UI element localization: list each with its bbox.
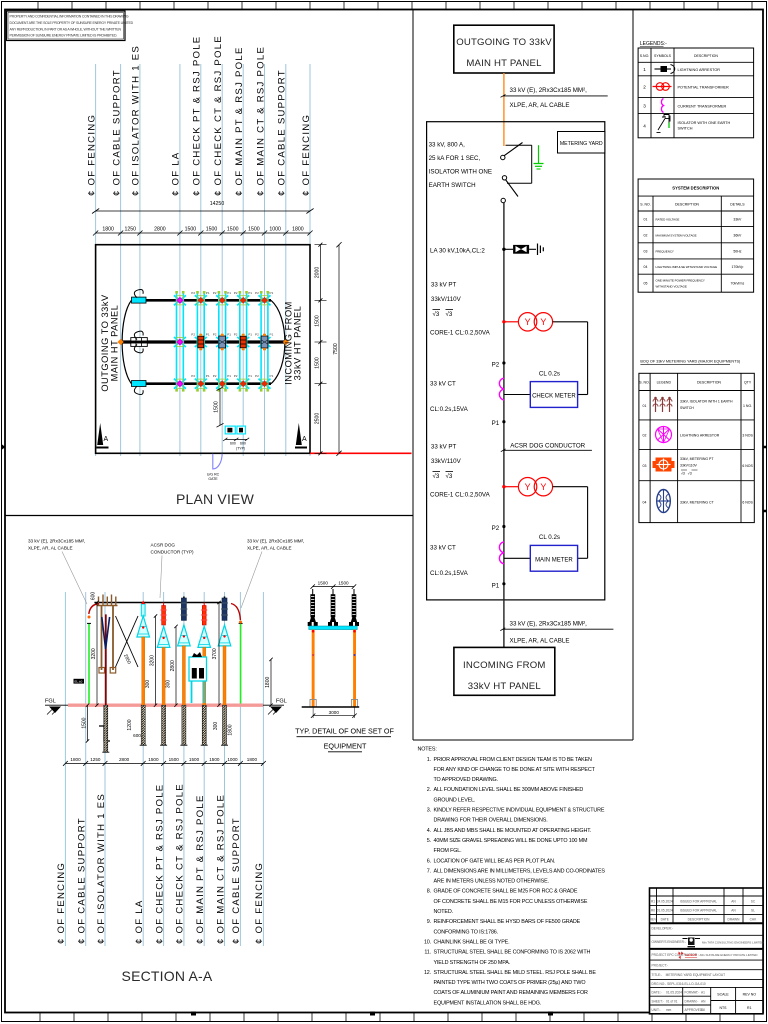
section MAIN PT equipment <box>198 603 211 746</box>
svg-text:2: 2 <box>643 84 646 89</box>
current transformer CT1 <box>499 378 504 400</box>
typ detail dimension top <box>311 580 357 589</box>
svg-text:LOCATION OF GATE WILL BE AS PE: LOCATION OF GATE WILL BE AS PER PLOT PLA… <box>434 858 556 864</box>
svg-text:P1: P1 <box>206 291 210 295</box>
svg-text:ISSUED FOR APPROVAL: ISSUED FOR APPROVAL <box>680 909 717 913</box>
svg-text:1.: 1. <box>427 757 431 763</box>
svg-text:UNIT:-: UNIT:- <box>652 1008 661 1012</box>
svg-text:M/s TATA CONSULTING ENGINEERS: M/s TATA CONSULTING ENGINEERS LIMITED <box>702 941 764 945</box>
svg-text:¢ OF CHECK CT & RSJ POLE: ¢ OF CHECK CT & RSJ POLE <box>213 35 224 196</box>
plan cable loop hooks <box>134 289 143 394</box>
svg-text:P1: P1 <box>270 291 274 295</box>
svg-text:TYP. DETAIL OF ONE SET OF: TYP. DETAIL OF ONE SET OF <box>295 727 394 736</box>
plan centre line labels <box>86 35 311 196</box>
section LA equipment <box>137 601 150 746</box>
section FGL line <box>45 699 287 715</box>
svg-text:P2: P2 <box>191 374 195 378</box>
node: incoming panel box <box>454 647 555 695</box>
svg-text:LEGEND: LEGEND <box>657 381 672 385</box>
svg-text:1200: 1200 <box>127 719 133 730</box>
section junction box on stand <box>189 652 207 703</box>
svg-text:S. NO.: S. NO. <box>640 203 651 207</box>
svg-text:A: A <box>104 436 109 443</box>
svg-text:(TYP): (TYP) <box>236 446 245 450</box>
plan left feeder arc <box>122 300 131 383</box>
svg-text:2000: 2000 <box>314 267 320 279</box>
svg-text:01.05.2024: 01.05.2024 <box>666 991 682 995</box>
svg-text:¢ OF ISOLATOR WITH 1 ES: ¢ OF ISOLATOR WITH 1 ES <box>96 793 107 944</box>
svg-text:LEGENDS:-: LEGENDS:- <box>640 41 667 47</box>
svg-text:¢ OF CHECK CT & RSJ POLE: ¢ OF CHECK CT & RSJ POLE <box>175 783 186 944</box>
svg-text:P2: P2 <box>213 374 217 378</box>
label: PT2 <box>430 444 491 499</box>
wire: main vertical <box>503 203 505 648</box>
BOQ heading <box>640 360 741 365</box>
svg-text:7.: 7. <box>427 868 431 874</box>
svg-text:BOQ OF 33kV METERING YARD (MAJ: BOQ OF 33kV METERING YARD (MAJOR EQUIPME… <box>640 360 741 364</box>
svg-text:CONDUCTOR (TYP): CONDUCTOR (TYP) <box>151 550 195 555</box>
svg-text:LA 30 kV,10kA,CL:2: LA 30 kV,10kA,CL:2 <box>430 248 485 255</box>
svg-text:P1: P1 <box>248 333 252 337</box>
typ detail beam <box>309 626 357 630</box>
svg-text:MAXIMUM SYSTEM VOLTAGE: MAXIMUM SYSTEM VOLTAGE <box>656 234 697 238</box>
svg-text:¢ OF LA: ¢ OF LA <box>134 900 145 944</box>
svg-text:OF CONCRETE SHALL BE M15 FOR P: OF CONCRETE SHALL BE M15 FOR PCC UNLESS … <box>434 899 588 905</box>
svg-text:DETAILS: DETAILS <box>730 203 745 207</box>
svg-text:1500: 1500 <box>314 357 320 369</box>
label: isolator <box>429 142 492 190</box>
svg-text:CHAINLINK SHALL BE GI TYPE.: CHAINLINK SHALL BE GI TYPE. <box>434 940 510 946</box>
svg-text:POTENTIAL TRANSFORMER: POTENTIAL TRANSFORMER <box>678 85 730 89</box>
plan segment dimensions <box>93 227 313 236</box>
label: incoming cable <box>500 621 613 645</box>
svg-text:PAINTED TYPE WITH TWO COATS OF: PAINTED TYPE WITH TWO COATS OF PRIMER (2… <box>434 980 586 986</box>
svg-text:¢ OF MAIN PT & RSJ POLE: ¢ OF MAIN PT & RSJ POLE <box>195 794 206 944</box>
svg-text:√3: √3 <box>446 311 453 318</box>
svg-text:6 NOS: 6 NOS <box>742 464 753 468</box>
svg-text:sunsure: sunsure <box>685 953 697 957</box>
svg-text:¢ OF CABLE SUPPORT: ¢ OF CABLE SUPPORT <box>231 817 242 944</box>
svg-text:GRADE OF CONCRETE SHALL BE M25: GRADE OF CONCRETE SHALL BE M25 FOR RCC &… <box>434 889 578 895</box>
plan outgoing node <box>117 339 123 345</box>
node: outgoing panel box <box>454 25 554 73</box>
svg-text:EQUIPMENT: EQUIPMENT <box>324 742 367 751</box>
plan P1/P2 labels <box>191 291 273 378</box>
svg-text:5.: 5. <box>427 838 431 844</box>
svg-text:COATS OF ALUMINIUM PAINT AND R: COATS OF ALUMINIUM PAINT AND REMAINING M… <box>434 990 588 996</box>
svg-text:33 kV (E), 2Rx3Cx185 MM²,: 33 kV (E), 2Rx3Cx185 MM², <box>510 621 588 628</box>
section X brace <box>116 616 139 667</box>
svg-text:6.: 6. <box>427 858 431 864</box>
section isolator below ground <box>102 705 109 752</box>
svg-text:01: 01 <box>644 218 648 222</box>
plan junction boxes <box>223 426 249 450</box>
section EL marker <box>74 679 85 684</box>
svg-text:GATE: GATE <box>208 477 218 481</box>
svg-text:36kV: 36kV <box>733 234 742 238</box>
svg-text:XLPE, AR, AL CABLE: XLPE, AR, AL CABLE <box>28 546 73 551</box>
label: outgoing cable <box>501 87 608 109</box>
section earthing strip bracket <box>99 726 110 741</box>
svg-text:XLPE, AR, AL CABLE: XLPE, AR, AL CABLE <box>247 546 292 551</box>
svg-text:STRUCTURAL STEEL SHALL BE CONF: STRUCTURAL STEEL SHALL BE CONFORMING TO … <box>434 950 591 956</box>
svg-text:TO APPROVED DRAWING.: TO APPROVED DRAWING. <box>434 777 498 783</box>
svg-text:CURRENT TRANSFORMER: CURRENT TRANSFORMER <box>678 104 727 108</box>
svg-text:CORE-1 CL:0.2,50VA: CORE-1 CL:0.2,50VA <box>430 330 491 337</box>
plan section marker A right <box>295 423 307 448</box>
svg-text:1800: 1800 <box>228 724 234 735</box>
svg-text:R1: R1 <box>651 900 655 904</box>
section cable V loop <box>102 617 110 649</box>
earth switch ground <box>534 145 544 169</box>
svg-text:A1: A1 <box>701 991 705 995</box>
wire: CT2 to main meter <box>504 487 588 559</box>
svg-text:NTS: NTS <box>720 1006 728 1010</box>
svg-text:ACSR DOG: ACSR DOG <box>151 543 176 548</box>
svg-text:MAIN HT PANEL: MAIN HT PANEL <box>466 58 542 69</box>
plan JB dimension 1500 <box>214 387 224 428</box>
svg-text:1500: 1500 <box>318 580 329 585</box>
svg-text:SWITCH: SWITCH <box>678 127 693 131</box>
main meter <box>539 534 560 541</box>
potential transformer PT2 <box>502 478 587 496</box>
svg-text:33 kV PT: 33 kV PT <box>431 282 457 289</box>
svg-text:70kVrms: 70kVrms <box>731 282 745 286</box>
svg-text:1250: 1250 <box>124 227 136 233</box>
svg-text:¢ OF LA: ¢ OF LA <box>171 152 182 196</box>
svg-text:11.: 11. <box>424 950 431 956</box>
svg-text:3 NOS: 3 NOS <box>742 434 753 438</box>
system description table <box>638 179 754 292</box>
typ detail poles <box>310 630 358 707</box>
svg-text:P2: P2 <box>234 333 238 337</box>
svg-text:DOCUMENT ARE THE SOLE PROPERTY: DOCUMENT ARE THE SOLE PROPERTY OF SUNSUR… <box>10 21 134 25</box>
svg-text:WITHSTAND VOLTAGE: WITHSTAND VOLTAGE <box>656 285 687 289</box>
legend table <box>638 48 754 138</box>
svg-text:P1: P1 <box>270 333 274 337</box>
svg-text:PRIOR APPROVAL FROM CLIENT DES: PRIOR APPROVAL FROM CLIENT DESIGN TEAM I… <box>434 757 593 763</box>
svg-text:P1: P1 <box>206 333 210 337</box>
svg-text:CORE-1 CL:0.2,50VA: CORE-1 CL:0.2,50VA <box>430 492 491 499</box>
svg-text:1: 1 <box>643 67 646 72</box>
plan bus bottom <box>132 382 272 385</box>
check meter <box>539 371 560 378</box>
svg-text:P2: P2 <box>255 333 259 337</box>
lightning arrester LA <box>502 244 543 256</box>
svg-text:OUTGOING TO 33kV: OUTGOING TO 33kV <box>456 37 552 48</box>
svg-text:R0: R0 <box>651 909 655 913</box>
typ detail title <box>295 727 394 752</box>
fold marks bottom <box>191 1012 553 1016</box>
svg-text:ARE IN METERS UNLESS NOTED OTH: ARE IN METERS UNLESS NOTED OTHERWISE. <box>434 879 549 885</box>
svg-text:PERMISSION OF SUNSURE ENERGY P: PERMISSION OF SUNSURE ENERGY PRIVATE LIM… <box>10 34 118 38</box>
section callout labels <box>28 539 304 609</box>
svg-text:1500: 1500 <box>185 227 197 233</box>
svg-text:¢ OF FENCING: ¢ OF FENCING <box>56 862 67 944</box>
legends heading <box>640 41 667 47</box>
svg-text:KINDLY REFER RESPECTIVE INDIVI: KINDLY REFER RESPECTIVE INDIVIDUAL EQUIP… <box>434 808 605 814</box>
svg-text:01.05.2024: 01.05.2024 <box>657 909 673 913</box>
svg-text:33kV/110V: 33kV/110V <box>431 296 462 303</box>
svg-text:33kV HT PANEL: 33kV HT PANEL <box>468 681 542 692</box>
svg-text:2800: 2800 <box>119 757 130 762</box>
svg-text:01 of 01: 01 of 01 <box>666 999 678 1003</box>
svg-text:05: 05 <box>644 282 648 286</box>
svg-text:P2: P2 <box>492 362 500 369</box>
label: PT1 <box>430 282 491 337</box>
section dimensions <box>81 592 272 743</box>
svg-text:SCALE: SCALE <box>717 993 729 997</box>
svg-text:P1: P1 <box>270 374 274 378</box>
svg-text:FROM FGL.: FROM FGL. <box>434 848 462 854</box>
svg-text:PROPERTY AND CONFIDENTIAL INFO: PROPERTY AND CONFIDENTIAL INFORMATION CO… <box>10 15 129 19</box>
svg-text:33 kV PT: 33 kV PT <box>431 444 457 451</box>
svg-text:SWITCH: SWITCH <box>680 406 694 410</box>
svg-text:4: 4 <box>643 123 646 128</box>
svg-text:Y: Y <box>540 482 546 492</box>
svg-text:1250: 1250 <box>90 757 101 762</box>
red FGL line extension <box>310 452 412 454</box>
node P2 lower <box>492 525 506 532</box>
svg-text:LIGHTNING ARRESTOR: LIGHTNING ARRESTOR <box>678 68 721 72</box>
potential transformer PT1 <box>502 313 587 331</box>
svg-text:¢ OF MAIN CT & RSJ POLE: ¢ OF MAIN CT & RSJ POLE <box>215 794 226 944</box>
svg-text:ISSUED FOR APPROVAL: ISSUED FOR APPROVAL <box>680 900 717 904</box>
section CHECK PT equipment <box>157 603 170 746</box>
svg-text:MAIN METER: MAIN METER <box>535 557 573 563</box>
svg-text:1800: 1800 <box>70 757 81 762</box>
svg-text:25 kA FOR 1 SEC,: 25 kA FOR 1 SEC, <box>429 155 481 162</box>
svg-text:OWNER'S ENGINEER:-: OWNER'S ENGINEER:- <box>652 940 686 944</box>
svg-text:170kVp: 170kVp <box>731 265 743 269</box>
svg-text:1800: 1800 <box>265 677 271 688</box>
svg-text:P1: P1 <box>248 374 252 378</box>
svg-text:600: 600 <box>133 733 141 738</box>
svg-text:XLPE, AR, AL CABLE: XLPE, AR, AL CABLE <box>510 638 570 645</box>
plan cable support bars <box>131 297 148 386</box>
svg-text:CHECK METER: CHECK METER <box>532 394 576 400</box>
label: LA <box>430 248 485 255</box>
svg-text:14250: 14250 <box>210 201 225 207</box>
svg-text:P2: P2 <box>234 291 238 295</box>
plan/section divider <box>5 515 413 517</box>
svg-text:1500: 1500 <box>314 315 320 327</box>
svg-text:¢ OF CABLE SUPPORT: ¢ OF CABLE SUPPORT <box>277 69 288 196</box>
section isolator structure <box>97 595 118 674</box>
svg-text:CL:0.2s,15VA: CL:0.2s,15VA <box>430 570 469 577</box>
svg-text:33 kV CT: 33 kV CT <box>430 381 456 388</box>
svg-text:2800: 2800 <box>170 660 176 671</box>
metering yard boundary <box>427 122 605 600</box>
svg-text:8.: 8. <box>427 889 431 895</box>
current transformer CT2 <box>499 542 504 564</box>
svg-text:LIGHTNING ARRESTOR: LIGHTNING ARRESTOR <box>680 434 720 438</box>
svg-text:1500: 1500 <box>248 227 260 233</box>
svg-text:CHK: CHK <box>750 918 758 922</box>
label: ACSR DOG conductor <box>501 442 592 451</box>
svg-text:33 kV (E), 2Rx3Cx185 MM²,: 33 kV (E), 2Rx3Cx185 MM², <box>247 539 304 544</box>
svg-text:¢ OF CABLE SUPPORT: ¢ OF CABLE SUPPORT <box>111 69 122 196</box>
plan incoming label <box>284 301 303 385</box>
svg-text:U/G RC: U/G RC <box>207 473 220 477</box>
svg-text:ISOLATOR WITH ONE EARTH: ISOLATOR WITH ONE EARTH <box>678 121 731 125</box>
BOQ symbol: metering PT <box>653 458 675 472</box>
metering yard label box <box>558 132 605 154</box>
column divider SLD/legend <box>632 10 634 741</box>
svg-text:P1: P1 <box>248 291 252 295</box>
svg-text:04: 04 <box>643 501 647 505</box>
svg-text:02: 02 <box>644 234 648 238</box>
svg-text:DRAWING FOR THEIR OVERALL DIME: DRAWING FOR THEIR OVERALL DIMENSIONS. <box>434 818 548 824</box>
column divider left/SLD <box>412 10 414 741</box>
svg-text:P1: P1 <box>492 582 500 589</box>
svg-text:1000: 1000 <box>269 227 281 233</box>
svg-text:√3: √3 <box>446 473 453 480</box>
svg-text:P2: P2 <box>255 374 259 378</box>
svg-text:QTY: QTY <box>744 381 752 385</box>
svg-text:P2: P2 <box>191 291 195 295</box>
node P2 upper <box>492 361 506 368</box>
legend symbol: lightning arrester <box>655 65 675 74</box>
svg-text:DRG NO:- SEPL-0316-EL-LO-GA-0: DRG NO:- SEPL-0316-EL-LO-GA-010 <box>652 982 706 986</box>
svg-text:SECTION A-A: SECTION A-A <box>122 968 213 984</box>
svg-text:¢ OF CABLE SUPPORT: ¢ OF CABLE SUPPORT <box>77 817 88 944</box>
svg-text:33kV/110V: 33kV/110V <box>680 464 698 468</box>
svg-text:CL 0.2s: CL 0.2s <box>539 371 560 378</box>
svg-text:√3: √3 <box>433 311 440 318</box>
svg-text:CL 0.2s: CL 0.2s <box>539 534 560 541</box>
svg-text:PLAN VIEW: PLAN VIEW <box>176 491 255 507</box>
plan outgoing label <box>100 294 120 392</box>
svg-text:1500: 1500 <box>81 717 87 728</box>
svg-text:XLPE, AR, AL CABLE: XLPE, AR, AL CABLE <box>510 102 570 109</box>
svg-text:M/s SUNSURE ENERGY PRIVATE LIM: M/s SUNSURE ENERGY PRIVATE LIMITED <box>700 953 758 957</box>
plan section marker A left <box>97 423 109 448</box>
svg-text:7500: 7500 <box>333 343 339 355</box>
svg-text:02: 02 <box>643 434 647 438</box>
svg-text:1800: 1800 <box>247 757 258 762</box>
plan right dimensions <box>314 242 341 456</box>
svg-text:SYMBOLS: SYMBOLS <box>654 54 672 58</box>
legend symbol: isolator with earth switch <box>657 115 671 133</box>
svg-text:AN: AN <box>731 900 736 904</box>
wire: outgoing cable (orange) <box>503 73 505 146</box>
svg-text:P2: P2 <box>213 333 217 337</box>
svg-text:√3: √3 <box>433 473 440 480</box>
svg-text:ISOLATOR WITH ONE: ISOLATOR WITH ONE <box>429 169 492 176</box>
svg-text:mm: mm <box>666 1008 672 1012</box>
svg-text:300: 300 <box>145 680 151 689</box>
svg-text:1500: 1500 <box>148 757 159 762</box>
svg-text:SC: SC <box>751 900 756 904</box>
svg-text:2500: 2500 <box>314 413 320 425</box>
svg-text:OUTGOING TO 33kV: OUTGOING TO 33kV <box>100 294 110 392</box>
plan gate symbol <box>207 454 222 481</box>
svg-text:DESCRIPTION: DESCRIPTION <box>675 203 699 207</box>
svg-text:01: 01 <box>643 404 647 408</box>
typ detail ground line <box>302 706 360 708</box>
svg-text:¢ OF ISOLATOR WITH 1 ES: ¢ OF ISOLATOR WITH 1 ES <box>131 45 142 196</box>
svg-text:P1: P1 <box>206 374 210 378</box>
confidentiality notice box <box>7 11 134 41</box>
svg-text:3000: 3000 <box>329 710 340 715</box>
svg-text:ALL DIMENSIONS ARE IN MILLIMET: ALL DIMENSIONS ARE IN MILLIMETERS, LEVEL… <box>434 868 606 874</box>
svg-text:FOR ANY KIND OF CHANGE TO BE D: FOR ANY KIND OF CHANGE TO BE DONE AT SIT… <box>434 767 596 773</box>
svg-text:DESCRIPTION: DESCRIPTION <box>688 918 710 922</box>
section title <box>122 968 213 984</box>
svg-text:300: 300 <box>213 722 219 731</box>
section isolator earth pole <box>105 614 107 714</box>
svg-text:CL:0.2s,15VA: CL:0.2s,15VA <box>430 406 469 413</box>
svg-text:DRAWN: DRAWN <box>728 918 741 922</box>
plan overall dimension 14250 <box>92 201 314 214</box>
svg-text:12.: 12. <box>424 970 431 976</box>
svg-text:Y: Y <box>525 482 531 492</box>
svg-text:1500: 1500 <box>227 227 239 233</box>
svg-text:ANY REPRODUCTION, IN PART OR A: ANY REPRODUCTION, IN PART OR AS A WHOLE,… <box>10 27 122 31</box>
svg-text:P2: P2 <box>213 291 217 295</box>
svg-text:600: 600 <box>91 592 97 601</box>
svg-text:1500: 1500 <box>189 757 200 762</box>
section centre lines <box>65 592 263 946</box>
svg-text:P2: P2 <box>255 291 259 295</box>
svg-text:¢ OF FENCING: ¢ OF FENCING <box>86 114 97 196</box>
svg-text:Y: Y <box>540 317 546 327</box>
svg-text:REV NO: REV NO <box>743 993 757 997</box>
plan view centre lines <box>96 64 310 456</box>
section top conductor <box>94 602 223 604</box>
wire: CT1 to check meter <box>504 322 588 395</box>
svg-text:6 NOS: 6 NOS <box>742 501 753 505</box>
svg-text:1 NO.: 1 NO. <box>743 404 752 408</box>
plan bus top <box>132 299 272 302</box>
svg-text:24.05.2024: 24.05.2024 <box>657 900 673 904</box>
svg-text:4.: 4. <box>427 828 431 834</box>
section centre line labels <box>56 783 265 944</box>
svg-text:AN: AN <box>701 999 706 1003</box>
svg-text:DATE:-: DATE:- <box>652 991 662 995</box>
svg-text:GROUND LEVEL.: GROUND LEVEL. <box>434 797 476 803</box>
svg-text:50Hz: 50Hz <box>733 250 741 254</box>
section incoming cable curve right <box>231 604 242 624</box>
svg-text:STRUCTURAL STEEL SHALL BE MILD: STRUCTURAL STEEL SHALL BE MILD STEEL. RS… <box>434 970 597 976</box>
svg-text:33kV/110V: 33kV/110V <box>431 458 462 465</box>
svg-text:¢ OF FENCING: ¢ OF FENCING <box>254 862 265 944</box>
section MAIN CT equipment <box>218 597 231 746</box>
svg-text:INCOMING FROM: INCOMING FROM <box>463 660 546 671</box>
legend symbol: potential transformer <box>653 83 672 91</box>
label: CT2 <box>430 545 469 578</box>
svg-text:A: A <box>302 436 307 443</box>
svg-text:P1: P1 <box>492 420 500 427</box>
svg-text:10.: 10. <box>424 940 431 946</box>
legend symbol: current transformer <box>661 99 663 113</box>
svg-text:R1: R1 <box>747 1006 752 1010</box>
svg-text:DESCRIPTION: DESCRIPTION <box>697 381 721 385</box>
svg-text:DATE: DATE <box>661 918 669 922</box>
section bottom dimension row <box>63 757 266 766</box>
svg-text:1500: 1500 <box>338 580 349 585</box>
svg-text:1500: 1500 <box>169 757 180 762</box>
svg-text:3.: 3. <box>427 808 431 814</box>
svg-text:¢ OF CHECK PT & RSJ POLE: ¢ OF CHECK PT & RSJ POLE <box>192 36 203 196</box>
title block <box>650 888 764 1014</box>
section CHECK CT equipment <box>178 597 191 746</box>
svg-text:FGL: FGL <box>45 699 56 705</box>
svg-text:MAIN HT PANEL: MAIN HT PANEL <box>110 305 120 382</box>
svg-text:33kV HT PANEL: 33kV HT PANEL <box>293 306 303 381</box>
svg-text:DESCRIPTION: DESCRIPTION <box>694 54 718 58</box>
